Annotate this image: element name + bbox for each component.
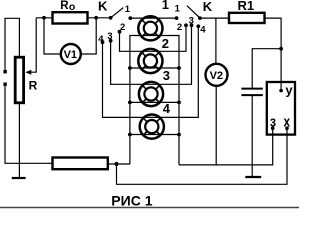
wire: V2 branch down (215, 18, 217, 63)
wire: shunt right to left bus (108, 163, 130, 165)
resistor R1 (229, 13, 265, 23)
lamp 4 (140, 115, 164, 139)
node: right selector terminal 3 (190, 23, 194, 27)
switch K (left) blade (111, 8, 124, 18)
svg-text:1: 1 (175, 3, 181, 14)
node: source terminal lower (3, 83, 6, 86)
wire: oscilloscope X input down and across to shunt (117, 128, 288, 184)
voltmeter V1 (61, 44, 81, 64)
wire: source loop top (left terminal post up and over to rheostat top) (5, 18, 19, 71)
resistor shunt (bottom) (53, 158, 108, 170)
node: left selector terminal 1 (128, 16, 132, 20)
wire: V1 left branch (44, 18, 61, 54)
node: X tap junction (114, 162, 118, 166)
lamp 2 (138, 49, 162, 73)
svg-text:4: 4 (98, 34, 104, 45)
wire: lamp3 bottom lead (130, 101, 179, 103)
svg-text:3: 3 (163, 68, 170, 83)
svg-text:R1: R1 (238, 0, 255, 13)
resistor R (rheostat body) (15, 57, 23, 103)
lamp 3 (139, 82, 163, 106)
svg-text:3: 3 (189, 16, 194, 27)
resistor Ro (53, 12, 88, 23)
wire: lamp1 top lead from terminal 1L to terminal 1R (130, 17, 176, 19)
node: right selector terminal 2 (184, 23, 188, 27)
switch K (left) pivot (109, 16, 113, 20)
node: right selector terminal 4 (196, 24, 200, 28)
wire: lamp2 top lead (120, 25, 187, 51)
wire: rheostat bottom lead down to ground (18, 104, 20, 178)
svg-text:V1: V1 (64, 49, 77, 61)
wire: wiper arm from top rail down (30, 18, 37, 72)
node: oscilloscope ground input (271, 126, 275, 130)
svg-text:1: 1 (162, 0, 169, 12)
switch K (right) blade (187, 6, 200, 18)
wire: R1 right down to oscilloscope Y input (265, 18, 282, 91)
ground (right) (245, 176, 261, 178)
page rule (0, 207, 299, 209)
wire: lamp3 top lead (111, 25, 192, 84)
wiper arrowhead into R (25, 70, 31, 75)
wire: lamp1 bottom lead joining both common buses (130, 36, 179, 165)
lamp 1 (138, 16, 162, 40)
wire: V2 bottom to common rail (215, 86, 217, 165)
voltmeter V2 (206, 64, 228, 86)
wire: common rail right (bus to ground node to osc ground) (179, 128, 273, 165)
wire: lamp2 bottom lead (130, 67, 179, 69)
node: left selector terminal 3 (109, 39, 113, 43)
wire: branch to capacitor top (252, 49, 281, 88)
svg-text:РИС 1: РИС 1 (111, 192, 152, 208)
svg-text:V2: V2 (210, 70, 223, 82)
svg-text:K: K (203, 0, 213, 14)
oscilloscope box (267, 82, 295, 135)
svg-text:K: K (98, 0, 108, 13)
capacitor C bottom plate (241, 94, 262, 96)
wire: lamp4 bottom lead (130, 134, 179, 136)
svg-text:2: 2 (120, 22, 125, 33)
node: right selector terminal 1 (175, 16, 179, 20)
node: bus dots lamp4 (128, 133, 132, 137)
svg-text:4: 4 (200, 25, 206, 36)
switch K (right) pivot (198, 16, 202, 20)
node: bus dots lamp2 (128, 66, 132, 70)
node: V1 left junction (42, 16, 46, 20)
svg-text:R: R (29, 78, 38, 92)
wire: left side down from lower terminal to bottom rail (5, 84, 53, 163)
svg-text:4: 4 (163, 101, 171, 116)
node: junction R1/capacitor branch (279, 47, 283, 51)
node: bus dots lamp3 (128, 101, 132, 105)
node: source terminal upper (3, 70, 6, 73)
svg-text:y: y (285, 82, 293, 97)
wire: top rail from wiper corner to Ro (36, 17, 52, 19)
node: V1 right junction (94, 16, 98, 20)
svg-text:3: 3 (107, 31, 112, 42)
wire: lamp4 top lead (103, 26, 199, 117)
svg-text:2: 2 (162, 36, 169, 51)
node: left selector terminal 4 (101, 40, 105, 44)
node: left selector terminal 2 (118, 30, 122, 34)
ground (left) (12, 177, 26, 179)
svg-text:1: 1 (125, 4, 131, 15)
svg-text:з: з (270, 114, 276, 130)
wire: Ro right to switch pivot (88, 17, 111, 19)
capacitor C top plate (241, 88, 262, 90)
svg-text:x: x (284, 114, 291, 130)
svg-text:Ro: Ro (60, 0, 75, 13)
wire: right switch to R1 (200, 17, 229, 19)
node: oscilloscope X input (285, 126, 289, 130)
svg-text:2: 2 (177, 22, 182, 33)
wire: V1 right branch (81, 18, 96, 54)
node: oscilloscope Y input (279, 89, 283, 93)
wire: capacitor bottom down to ground (251, 95, 253, 177)
